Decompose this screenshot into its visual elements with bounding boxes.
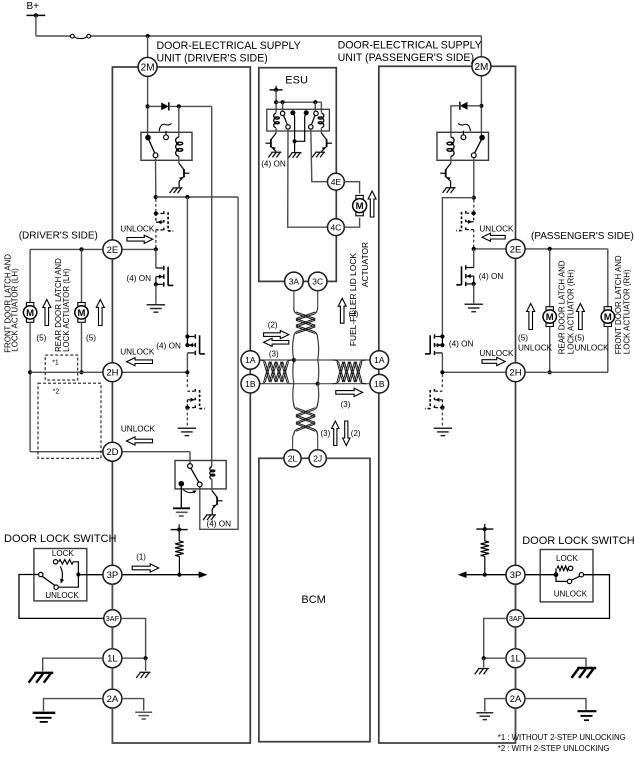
key switch S4 dashed below 2H right xyxy=(441,374,443,389)
arrow up rear motor RH xyxy=(527,304,535,330)
arrow unlock 2H right xyxy=(482,357,505,365)
unit box: door-electrical supply unit (driver side) xyxy=(112,67,250,743)
wire 3P to switch common xyxy=(525,574,556,576)
wire K2 common to ground xyxy=(180,487,182,508)
dashed option box *1 xyxy=(45,355,77,380)
wire 2H-right inside xyxy=(442,371,515,373)
ESU coil left xyxy=(274,113,276,127)
svg-text:LOCK: LOCK xyxy=(556,554,578,563)
diode D1 xyxy=(161,103,169,111)
svg-text:(5): (5) xyxy=(36,334,46,343)
wire 2A-right to bottom xyxy=(515,708,517,743)
svg-text:(4) ON: (4) ON xyxy=(479,272,504,281)
transistor Q3 ESU left xyxy=(275,128,277,133)
svg-text:UNIT (PASSENGER'S SIDE): UNIT (PASSENGER'S SIDE) xyxy=(338,52,474,64)
svg-text:(4) ON: (4) ON xyxy=(127,274,152,283)
wire rear motor LH bottom xyxy=(81,322,83,372)
ground S4 xyxy=(434,427,452,429)
arrow up front motor LH xyxy=(43,300,51,326)
svg-text:UNLOCK: UNLOCK xyxy=(479,349,514,358)
wire 2A-right to left ground xyxy=(485,699,506,712)
connector 3P left xyxy=(103,565,122,584)
wire ESU sw1 to 4C xyxy=(288,129,328,227)
connector 2H left xyxy=(103,363,122,382)
wire 3AF-right to ground junction xyxy=(484,618,507,658)
svg-text:1B: 1B xyxy=(374,379,385,389)
svg-text:*1: *1 xyxy=(52,359,59,366)
wire 2A-right to right ground xyxy=(525,699,586,710)
arrow up rear motor LH xyxy=(96,300,104,326)
lock contact + resistor xyxy=(53,560,57,564)
connector 2M right xyxy=(472,57,491,76)
twisted pair 1A/1B right xyxy=(337,362,362,383)
svg-text:1L: 1L xyxy=(510,654,521,665)
wire 3AF-left to ground junction xyxy=(121,618,146,658)
wire 1L-right junctions xyxy=(484,657,506,659)
ESU switch 2 xyxy=(314,111,318,115)
svg-text:2D: 2D xyxy=(106,447,118,458)
connector 2J xyxy=(309,450,326,467)
svg-text:*2: *2 xyxy=(53,389,60,396)
relay K2 blade xyxy=(191,468,199,482)
arrow unlock 2D left xyxy=(127,437,153,445)
wire bundle down xyxy=(293,384,319,405)
ESU switch 1 common xyxy=(290,110,295,115)
twisted pair 1A/1B left xyxy=(264,362,289,383)
ground Q2 xyxy=(206,514,216,516)
ESU switch 1 xyxy=(280,111,284,115)
motor front door latch LH xyxy=(26,303,33,307)
transistor switch T1 (4 ON) xyxy=(155,249,157,268)
connector 1L right xyxy=(506,649,525,668)
wire switch common to 3AF xyxy=(19,575,104,619)
wire diode to coil branch xyxy=(169,105,212,107)
relay K1 switch xyxy=(145,135,151,141)
svg-text:2E: 2E xyxy=(107,245,119,256)
svg-text:(3): (3) xyxy=(321,429,331,438)
arrow unlock 2E left xyxy=(127,235,153,243)
svg-text:LOCK ACTUATOR (RH): LOCK ACTUATOR (RH) xyxy=(567,269,576,354)
relay K3 contact NC xyxy=(461,135,466,140)
svg-text:M: M xyxy=(78,308,86,319)
wire 2H-right outside xyxy=(516,371,608,373)
relay K1 contact NC xyxy=(164,135,169,140)
arrow (3) left xyxy=(264,338,289,346)
wire front motor RH top xyxy=(607,249,609,307)
ground 1L right small xyxy=(140,671,151,673)
svg-text:2H: 2H xyxy=(106,368,118,379)
wire 2H-left outside xyxy=(30,371,112,373)
relay K1 actuator squiggle xyxy=(159,123,171,131)
ground Q1 xyxy=(173,187,183,189)
wire 3P-right with arrowhead xyxy=(466,574,506,576)
wire rail down to connector 2M left xyxy=(147,36,149,58)
fuse F1 xyxy=(70,34,74,38)
svg-text:UNLOCK: UNLOCK xyxy=(45,591,79,600)
connector 4C xyxy=(328,219,345,236)
transistor switch T3 (4 ON) xyxy=(473,249,475,268)
wire front motor LH top xyxy=(29,249,31,302)
connector 1B left xyxy=(241,374,260,393)
ground Q5 xyxy=(446,187,456,189)
ground 1L-right small xyxy=(478,668,489,670)
connector 3P right xyxy=(506,565,525,584)
connector 1L left xyxy=(103,649,122,668)
ESU switch 2 common xyxy=(304,110,309,115)
svg-text:M: M xyxy=(356,201,364,212)
svg-text:B+: B+ xyxy=(27,1,40,12)
arrow unlock 2H left xyxy=(127,358,153,366)
svg-text:3P: 3P xyxy=(510,570,522,581)
diode D2 xyxy=(468,105,482,107)
svg-text:1L: 1L xyxy=(107,654,118,665)
ground 1L left bold xyxy=(34,672,53,674)
wire 1L-right to right ground xyxy=(525,658,586,666)
svg-text:2A: 2A xyxy=(107,694,119,705)
svg-text:3AF: 3AF xyxy=(106,614,120,623)
transistor switch T2 (4 ON) xyxy=(186,197,188,337)
ground S2 xyxy=(178,427,196,429)
ground 2A left bold xyxy=(33,712,56,714)
svg-text:1B: 1B xyxy=(245,379,256,389)
wire 2M-right down to relay xyxy=(480,76,482,136)
svg-text:(4) ON: (4) ON xyxy=(156,341,181,350)
ESU relay box xyxy=(267,109,330,131)
svg-text:(4) ON: (4) ON xyxy=(261,159,286,168)
ground Q4 xyxy=(315,151,325,153)
relay K2 actuator arrow xyxy=(183,490,195,493)
connector 2A left xyxy=(103,689,122,708)
wire 3P chain down right xyxy=(515,584,517,610)
arrow down (2) at 2J xyxy=(343,421,350,446)
wire 1L-left to left ground xyxy=(43,658,103,671)
arrow (2) right xyxy=(264,331,289,339)
svg-text:M: M xyxy=(546,312,554,323)
svg-text:M: M xyxy=(604,312,612,323)
svg-text:4C: 4C xyxy=(330,222,341,232)
connector 3AF left xyxy=(104,610,121,627)
svg-text:M: M xyxy=(26,308,34,319)
svg-text:UNLOCK: UNLOCK xyxy=(479,224,514,233)
wire 2J to BCM corner xyxy=(326,457,370,459)
power stub above resistor R2 xyxy=(476,528,493,530)
svg-text:UNLOCK: UNLOCK xyxy=(518,344,553,353)
wire T3 to ground xyxy=(473,284,475,303)
svg-text:(DRIVER'S SIDE): (DRIVER'S SIDE) xyxy=(19,231,98,242)
wire 2H-left inside xyxy=(112,371,187,373)
svg-text:3A: 3A xyxy=(289,276,300,286)
unlock contact right xyxy=(556,575,567,582)
wire lock-relay feed down xyxy=(211,106,213,466)
power stub above resistor R1 xyxy=(171,529,188,531)
wire 2D-left outside xyxy=(30,451,112,453)
arrow (3) right row xyxy=(336,388,363,396)
wire rows to right connectors xyxy=(294,359,370,361)
wire rear motor RH top xyxy=(549,249,551,307)
wire rail down to connector 2M right xyxy=(480,36,482,58)
svg-text:(5): (5) xyxy=(575,334,585,343)
svg-text:FRONT DOOR LATCH AND: FRONT DOOR LATCH AND xyxy=(614,255,623,354)
relay K3 actuator squiggle xyxy=(458,123,470,131)
svg-text:2M: 2M xyxy=(141,63,155,74)
ground 2A right xyxy=(135,711,152,713)
wire 2M-left to relay xyxy=(147,77,149,136)
relay K3 switch xyxy=(479,135,485,141)
ground 1L right bold xyxy=(577,667,596,669)
relay K1 box xyxy=(141,132,192,160)
motor rear door latch RH xyxy=(546,307,553,311)
wire 1L-left junctions xyxy=(122,657,146,659)
ground T1 xyxy=(147,304,165,306)
svg-text:UNLOCK: UNLOCK xyxy=(120,225,155,234)
svg-text:(1): (1) xyxy=(136,552,146,561)
connector 1B right xyxy=(370,374,389,393)
ground ESU middle xyxy=(292,152,302,154)
svg-text:3C: 3C xyxy=(312,276,323,286)
switch common contact xyxy=(39,572,43,576)
unit box: BCM xyxy=(259,458,370,741)
wire ESU sw2 to 4E xyxy=(311,129,328,182)
transistor Q1 xyxy=(178,156,180,163)
svg-text:UNLOCK: UNLOCK xyxy=(121,425,156,434)
dashed option box *2 xyxy=(38,383,101,458)
svg-text:2J: 2J xyxy=(313,453,322,463)
ESU coil right xyxy=(321,113,323,127)
wire 1B-left row xyxy=(260,383,318,385)
arrow (1) right xyxy=(132,564,159,572)
switch box right xyxy=(540,550,593,602)
wire 2D to unlock relay contact xyxy=(189,452,191,464)
connector 2M left xyxy=(138,57,157,76)
wire 2E-right to motors xyxy=(516,248,608,250)
svg-text:2E: 2E xyxy=(510,244,522,255)
connector 3C xyxy=(308,272,327,291)
svg-text:4E: 4E xyxy=(331,177,342,187)
wire 2A-left to BCM bottom xyxy=(111,708,113,743)
transistor Q5 xyxy=(450,156,452,163)
connector 2D left xyxy=(103,442,122,461)
svg-text:UNLOCK: UNLOCK xyxy=(575,344,610,353)
svg-text:UNLOCK: UNLOCK xyxy=(120,348,155,357)
wire lock feed horizontal xyxy=(156,196,238,198)
relay K3 box xyxy=(437,132,489,160)
svg-text:(2): (2) xyxy=(268,321,278,330)
wire T1 to ground xyxy=(155,284,157,303)
svg-text:(2): (2) xyxy=(351,429,361,438)
switch box left xyxy=(34,549,87,601)
wire B+ down xyxy=(35,15,37,36)
svg-text:2L: 2L xyxy=(288,453,298,463)
svg-text:BCM: BCM xyxy=(301,594,325,606)
wire 3P-left with arrowhead xyxy=(122,574,199,576)
ground Q3 xyxy=(271,151,281,153)
connector 1A right xyxy=(370,351,389,370)
connector 2A right xyxy=(506,689,525,708)
key switch S3 dashed xyxy=(473,200,475,212)
relay K3 coil xyxy=(451,137,454,156)
connector 1A left xyxy=(241,351,260,370)
svg-text:REAR DOOR LATCH AND: REAR DOOR LATCH AND xyxy=(558,260,567,354)
ground K2 common xyxy=(173,507,190,509)
switch blade right xyxy=(579,573,583,577)
svg-text:(4) ON: (4) ON xyxy=(449,339,474,348)
svg-text:LOCK ACTUATOR (LH): LOCK ACTUATOR (LH) xyxy=(62,268,71,352)
wire 2A-left to right ground xyxy=(122,699,144,711)
unlock contact wire xyxy=(58,575,78,588)
wire front motor LH bottom xyxy=(29,322,31,451)
ground T3 xyxy=(465,303,483,305)
wire common to 3P left xyxy=(80,574,103,576)
relay K2 coil xyxy=(210,467,212,479)
wire diode branch xyxy=(148,105,162,107)
svg-text:LOCK ACTUATOR (RH): LOCK ACTUATOR (RH) xyxy=(623,269,632,354)
svg-text:3AF: 3AF xyxy=(509,614,523,623)
wire lid motor to 4C xyxy=(344,218,359,228)
twisted pair upper xyxy=(296,312,315,334)
wire 2E-left inside xyxy=(112,248,155,250)
wire 3C down xyxy=(317,291,319,309)
svg-text:2H: 2H xyxy=(509,368,521,379)
svg-text:1A: 1A xyxy=(245,355,256,365)
connector 3AF right xyxy=(507,610,524,627)
arrow up (3) at 2J xyxy=(332,421,339,446)
relay K2 box xyxy=(175,461,226,489)
svg-text:*1 : WITHOUT 2-STEP UNLOCKING: *1 : WITHOUT 2-STEP UNLOCKING xyxy=(498,733,626,742)
resistor R1 xyxy=(178,530,180,541)
wire diode to coil right xyxy=(451,106,460,137)
switch blade xyxy=(42,576,55,585)
unit box: ESU xyxy=(259,68,337,282)
connector 2E left xyxy=(103,240,122,259)
connector 4E xyxy=(328,173,345,190)
connector 3A xyxy=(285,272,304,291)
wire switch common to 3AF right xyxy=(524,575,609,619)
relay K2 common contact xyxy=(179,481,185,487)
wire ESU feed xyxy=(275,90,277,113)
wire 3A down xyxy=(293,291,295,309)
transistor Q4 ESU right xyxy=(320,128,322,133)
wire 2D-left inside xyxy=(112,451,190,453)
arrow up lid motor xyxy=(368,191,376,217)
motor rear door latch LH xyxy=(78,303,85,307)
arrow unlock 2E right xyxy=(482,233,505,241)
wire rear motor LH top xyxy=(81,249,83,302)
wire front motor RH bottom xyxy=(607,327,609,373)
ESU common ground wire xyxy=(293,139,297,143)
svg-text:(3): (3) xyxy=(341,400,351,409)
wire 4E to lid motor xyxy=(344,182,359,194)
svg-text:FUEL-FILLER LID LOCK: FUEL-FILLER LID LOCK xyxy=(348,253,358,346)
ground 2A right bold earth xyxy=(578,710,597,712)
svg-text:2M: 2M xyxy=(474,62,488,73)
lock resistor right xyxy=(555,568,557,574)
svg-text:LOCK ACTUATOR (LH): LOCK ACTUATOR (LH) xyxy=(11,268,20,352)
svg-text:UNIT (DRIVER'S SIDE): UNIT (DRIVER'S SIDE) xyxy=(157,53,268,65)
ground 2A-right left earth xyxy=(476,712,493,714)
wire top rail xyxy=(36,35,71,37)
connector 2H right xyxy=(506,363,525,382)
svg-text:1A: 1A xyxy=(374,355,385,365)
unit box: door-electrical supply unit (passenger side) xyxy=(379,66,516,743)
svg-text:(3): (3) xyxy=(349,310,359,319)
wire rear motor RH bottom xyxy=(549,327,551,373)
svg-text:3P: 3P xyxy=(107,570,119,581)
motor fuel-filler lid lock xyxy=(356,195,363,199)
transistor Q2 xyxy=(211,479,213,490)
key switch S1 dashed from relay output xyxy=(155,199,157,212)
resistor R2 xyxy=(484,529,486,541)
junction rail to left 2M xyxy=(146,34,150,38)
connector 2E right xyxy=(506,239,525,258)
svg-text:DOOR-ELECTRICAL SUPPLY: DOOR-ELECTRICAL SUPPLY xyxy=(338,40,482,52)
arrow up at 3C xyxy=(338,298,346,323)
ESU power stub xyxy=(270,89,283,91)
wire relay K1 output xyxy=(155,158,157,197)
arrow up front motor RH xyxy=(576,304,584,330)
wire relay K3 output xyxy=(473,158,475,198)
connector 2L xyxy=(284,450,301,467)
relay K1 coil xyxy=(176,137,179,156)
wire lock feed right leg down to unlock relay contact xyxy=(200,197,238,529)
svg-text:ACTUATOR: ACTUATOR xyxy=(360,242,370,287)
svg-text:DOOR LOCK SWITCH: DOOR LOCK SWITCH xyxy=(522,535,634,547)
wire to 2L 2J xyxy=(292,435,294,449)
svg-text:DOOR LOCK SWITCH: DOOR LOCK SWITCH xyxy=(4,533,117,545)
wire 1A-left row xyxy=(260,359,294,361)
motor front door latch RH xyxy=(604,307,611,311)
wire 2A-left to left ground xyxy=(44,699,103,712)
wire 2E-right inside xyxy=(474,248,516,250)
svg-text:UNLOCK: UNLOCK xyxy=(554,589,588,598)
transistor switch T4 (4 ON) xyxy=(435,336,442,338)
svg-text:LOCK: LOCK xyxy=(52,549,74,558)
svg-text:DOOR-ELECTRICAL SUPPLY: DOOR-ELECTRICAL SUPPLY xyxy=(157,40,301,52)
svg-text:(PASSENGER'S SIDE): (PASSENGER'S SIDE) xyxy=(531,231,634,242)
switch actuate arrow xyxy=(60,567,62,581)
wire 3P chain down left xyxy=(111,584,113,610)
svg-text:ESU: ESU xyxy=(285,75,308,87)
svg-text:(3): (3) xyxy=(269,350,279,359)
relay K2 input contact xyxy=(188,464,193,469)
wire 2E-left to motors xyxy=(30,248,112,250)
wire K3 output left leg xyxy=(442,198,473,337)
svg-text:(4) ON: (4) ON xyxy=(207,519,232,528)
svg-text:*2 : WITH 2-STEP UNLOCKING: *2 : WITH 2-STEP UNLOCKING xyxy=(498,744,610,753)
svg-text:(5): (5) xyxy=(86,334,96,343)
svg-text:(5): (5) xyxy=(518,334,528,343)
twisted pair lower xyxy=(296,408,315,432)
key switch S2 dashed below 2H xyxy=(186,374,188,389)
svg-text:2A: 2A xyxy=(510,694,522,705)
